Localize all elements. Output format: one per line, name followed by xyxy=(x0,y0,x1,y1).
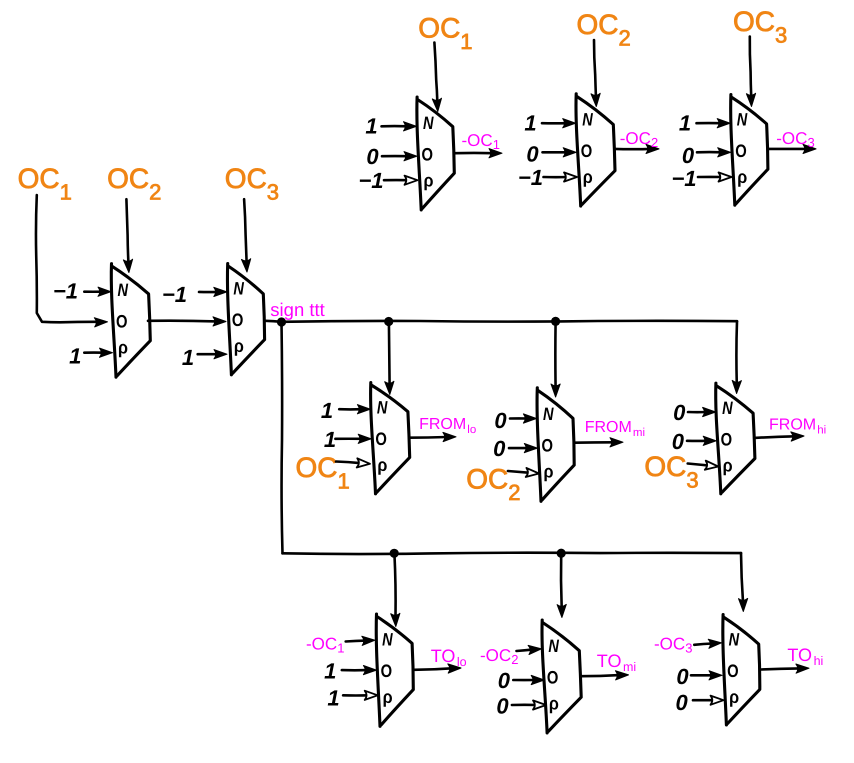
svg-text:O: O xyxy=(542,436,554,456)
svg-text:-OC: -OC xyxy=(654,635,685,654)
svg-text:0: 0 xyxy=(366,144,379,169)
svg-text:ρ: ρ xyxy=(118,338,128,358)
wire U11 output xyxy=(761,664,809,673)
label TO_mi (U10 output) xyxy=(597,651,636,674)
mux U7 (FROM_mi) xyxy=(537,388,574,502)
svg-text:N: N xyxy=(729,629,740,649)
svg-text:−1: −1 xyxy=(162,282,187,307)
svg-text:2: 2 xyxy=(149,180,161,205)
svg-text:3: 3 xyxy=(775,23,787,48)
svg-text:O: O xyxy=(422,145,434,165)
wire top bus corner down to F3 select xyxy=(732,321,741,393)
svg-text:lo: lo xyxy=(457,655,467,669)
svg-text:N: N xyxy=(382,630,393,650)
svg-text:ρ: ρ xyxy=(377,455,387,475)
wire U3 output xyxy=(769,144,816,153)
svg-text:0: 0 xyxy=(494,408,507,433)
wire U1 O input xyxy=(382,152,417,161)
wire U10 P input xyxy=(512,700,546,709)
svg-text:O: O xyxy=(375,429,387,449)
svg-text:OC: OC xyxy=(418,12,460,43)
svg-text:ρ: ρ xyxy=(234,336,244,356)
svg-text:2: 2 xyxy=(508,480,520,505)
svg-text:N: N xyxy=(233,279,244,299)
svg-text:ρ: ρ xyxy=(723,456,733,476)
wire U10 output xyxy=(581,671,628,680)
wire U5 output to sign node xyxy=(265,321,281,322)
wire U8 output xyxy=(754,432,804,441)
junction bottom bus / G2 xyxy=(557,549,566,558)
svg-text:hi: hi xyxy=(814,654,824,668)
svg-text:0: 0 xyxy=(526,142,539,167)
wire U9 output xyxy=(414,664,461,673)
svg-text:2: 2 xyxy=(651,135,658,150)
wire U3 O input xyxy=(697,148,731,157)
svg-text:1: 1 xyxy=(327,686,339,711)
junction top bus / F1 xyxy=(384,317,393,326)
wire OC3 to U3 select xyxy=(746,37,755,107)
svg-text:1: 1 xyxy=(365,114,377,139)
svg-text:TO: TO xyxy=(787,645,812,665)
svg-text:N: N xyxy=(377,398,388,418)
wire U5 N input xyxy=(199,287,227,296)
wire drop to G2 select xyxy=(557,553,566,617)
mux U8 (FROM_hi) xyxy=(716,383,755,494)
junction bottom bus / G1 xyxy=(390,549,399,558)
label OC1 (select of mux U1) xyxy=(418,12,472,54)
svg-text:O: O xyxy=(116,312,128,332)
label FROM_mi (U7 output) xyxy=(585,419,645,439)
svg-text:-OC: -OC xyxy=(462,131,493,150)
svg-text:OC: OC xyxy=(466,464,508,495)
svg-text:-OC: -OC xyxy=(306,635,337,654)
label OC1 (input of mux U4) xyxy=(18,163,72,205)
svg-text:FROM: FROM xyxy=(769,417,816,434)
wire U5 P input xyxy=(198,350,227,359)
svg-text:OC: OC xyxy=(733,6,775,37)
svg-text:OC: OC xyxy=(18,163,60,194)
svg-text:3: 3 xyxy=(686,468,698,493)
label OC1 (U6 P input) xyxy=(296,452,350,494)
label OC2 (select of mux U4) xyxy=(107,163,161,205)
mux U10 (TO_mi) xyxy=(542,620,581,733)
svg-text:TO: TO xyxy=(431,646,456,666)
svg-text:OC: OC xyxy=(577,9,619,40)
wire U8 N input xyxy=(688,407,716,416)
wire U2 P input xyxy=(544,172,578,181)
svg-text:3: 3 xyxy=(267,180,279,205)
wire OC3 to U5 select xyxy=(242,199,251,272)
svg-text:mi: mi xyxy=(623,660,636,674)
svg-text:1: 1 xyxy=(679,111,691,136)
mux U11 (TO_hi) xyxy=(723,615,760,725)
wire U10 N input xyxy=(517,645,542,654)
svg-text:1: 1 xyxy=(60,180,72,205)
wire drop to F1 select xyxy=(385,322,394,395)
junction top bus / F2 xyxy=(551,317,560,326)
mux U5 xyxy=(227,264,264,375)
svg-text:−1: −1 xyxy=(671,166,696,191)
wire U9 N input xyxy=(346,636,375,645)
wire U2 O input xyxy=(543,148,577,157)
wire U3 P input xyxy=(698,172,732,181)
mux U4 xyxy=(111,264,150,378)
svg-text:lo: lo xyxy=(467,424,476,436)
svg-text:3: 3 xyxy=(685,641,692,656)
wire drop to G1 select xyxy=(391,553,400,626)
svg-text:1: 1 xyxy=(524,111,536,136)
svg-text:N: N xyxy=(737,109,748,129)
svg-text:ρ: ρ xyxy=(544,462,554,482)
svg-text:1: 1 xyxy=(324,427,336,452)
svg-text:N: N xyxy=(543,404,554,424)
wire U11 P input xyxy=(693,696,724,705)
svg-text:FROM: FROM xyxy=(585,419,632,436)
svg-text:OC: OC xyxy=(644,451,686,482)
wire U8 O input xyxy=(687,436,716,445)
wire OC1 down and into U4 O input xyxy=(36,195,108,327)
svg-text:N: N xyxy=(582,109,593,129)
wire OC2 to U4 select xyxy=(123,199,132,272)
svg-text:sign ttt: sign ttt xyxy=(270,299,325,320)
svg-text:1: 1 xyxy=(182,345,194,370)
mux U2 xyxy=(576,94,615,206)
wire U7 output xyxy=(575,438,623,447)
svg-text:1: 1 xyxy=(69,344,81,369)
wire sign node down to bottom bus xyxy=(282,322,283,553)
svg-text:ρ: ρ xyxy=(424,171,434,191)
label TO_lo (U9 output) xyxy=(431,646,467,669)
svg-text:N: N xyxy=(118,280,129,300)
svg-text:FROM: FROM xyxy=(419,416,466,433)
svg-text:O: O xyxy=(721,430,733,450)
svg-text:0: 0 xyxy=(496,694,509,719)
label -OC3 (U11 N input) xyxy=(654,635,693,656)
svg-text:O: O xyxy=(381,661,393,681)
wire U11 O input xyxy=(691,671,722,680)
svg-text:3: 3 xyxy=(808,135,815,150)
svg-text:N: N xyxy=(548,636,559,656)
svg-text:0: 0 xyxy=(676,664,689,689)
svg-text:1: 1 xyxy=(337,641,344,656)
svg-text:N: N xyxy=(722,398,733,418)
svg-text:mi: mi xyxy=(633,427,645,439)
svg-text:hi: hi xyxy=(817,425,826,437)
svg-text:1: 1 xyxy=(321,398,333,423)
label -OC2 (U10 N input) xyxy=(480,646,519,667)
svg-text:O: O xyxy=(735,141,747,161)
label OC2 (select of mux U2) xyxy=(577,9,631,51)
svg-text:O: O xyxy=(581,141,593,161)
svg-text:-OC: -OC xyxy=(776,129,807,148)
op-amp-style mux U1 xyxy=(417,97,454,210)
svg-text:2: 2 xyxy=(619,26,631,51)
wire U6 output xyxy=(409,432,456,441)
svg-text:0: 0 xyxy=(493,436,506,461)
wire top bus (sign ttt) horizontal xyxy=(282,320,738,324)
wire U6 N input xyxy=(339,405,370,414)
wire OC1 to U1 select xyxy=(432,43,441,112)
svg-text:ρ: ρ xyxy=(383,687,393,707)
label -OC1 (U1 output) xyxy=(462,131,501,152)
wire U10 O input xyxy=(513,675,544,684)
wire U2 N input xyxy=(542,119,576,128)
svg-text:−1: −1 xyxy=(518,165,543,190)
wire U4 output to U5 O input xyxy=(148,317,226,326)
wire bottom bus horizontal xyxy=(283,553,742,554)
label OC3 (select of mux U3) xyxy=(733,6,787,48)
svg-text:0: 0 xyxy=(682,143,695,168)
label -OC2 (U2 output) xyxy=(620,129,659,150)
wire U11 N input xyxy=(694,639,721,648)
label OC2 (U7 P input) xyxy=(466,464,520,506)
wire U4 N input xyxy=(84,287,111,296)
svg-text:1: 1 xyxy=(324,659,336,684)
wire U2 output xyxy=(615,144,660,153)
svg-text:O: O xyxy=(727,661,739,681)
label FROM_hi (U8 output) xyxy=(769,417,826,437)
mux U9 (TO_lo) xyxy=(376,614,413,726)
svg-text:OC: OC xyxy=(107,163,149,194)
svg-text:ρ: ρ xyxy=(549,693,559,713)
wire U7 O input xyxy=(509,444,537,453)
wire U7 P input xyxy=(508,468,539,477)
label -OC1 (U9 N input) xyxy=(306,635,345,656)
label FROM_lo (U6 output) xyxy=(419,416,476,436)
svg-text:ρ: ρ xyxy=(737,167,747,187)
svg-text:−1: −1 xyxy=(358,168,383,193)
svg-text:-OC: -OC xyxy=(480,646,511,665)
svg-text:ρ: ρ xyxy=(729,687,739,707)
wire U8 P input xyxy=(688,461,719,470)
node sign ttt junction xyxy=(277,317,286,326)
svg-text:0: 0 xyxy=(675,690,688,715)
label -OC3 (U3 output) xyxy=(776,129,815,150)
wire U9 O input xyxy=(342,666,377,675)
svg-text:N: N xyxy=(423,113,434,133)
wire U1 P input xyxy=(384,176,418,185)
svg-text:O: O xyxy=(547,667,559,687)
mux U6 (FROM_lo) xyxy=(371,383,410,494)
label OC3 (select of mux U5) xyxy=(225,163,279,205)
svg-text:OC: OC xyxy=(225,163,267,194)
wire U6 O input xyxy=(335,434,371,443)
label TO_hi (U11 output) xyxy=(787,645,823,668)
svg-text:1: 1 xyxy=(493,137,500,152)
svg-text:OC: OC xyxy=(296,452,338,483)
wire U1 N input xyxy=(382,122,417,131)
svg-text:1: 1 xyxy=(460,29,472,54)
svg-text:-OC: -OC xyxy=(620,129,651,148)
svg-text:2: 2 xyxy=(511,652,518,667)
wire bottom bus corner down to G3 select xyxy=(739,553,748,611)
wire U7 N input xyxy=(510,414,536,423)
svg-text:ρ: ρ xyxy=(583,167,593,187)
svg-text:O: O xyxy=(232,310,244,330)
wire U4 P input xyxy=(84,348,112,357)
svg-text:TO: TO xyxy=(597,651,622,671)
svg-text:−1: −1 xyxy=(53,279,78,304)
svg-text:1: 1 xyxy=(338,469,350,494)
svg-text:0: 0 xyxy=(498,668,511,693)
mux U3 xyxy=(731,95,768,206)
wire U1 output xyxy=(455,149,502,158)
label OC3 (U8 P input) xyxy=(644,451,698,493)
wire OC2 to U2 select xyxy=(591,40,600,107)
wire U9 P input xyxy=(343,691,378,700)
wire drop to F2 select xyxy=(551,321,560,397)
wire U3 N input xyxy=(697,119,731,128)
wire U6 P input xyxy=(336,458,370,467)
svg-text:0: 0 xyxy=(673,400,686,425)
